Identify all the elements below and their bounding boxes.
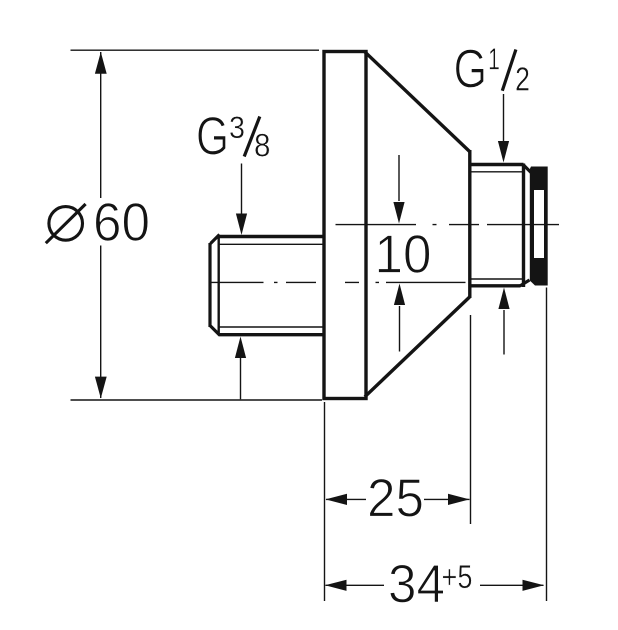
spigot bottom thread line [219,326,323,328]
arrowhead G3/8 up [235,337,246,359]
centerline G3/8 axis [210,281,466,283]
arrowhead 10 down [393,202,404,224]
spigot top chamfer [211,235,220,244]
label +5 tolerance [443,565,472,588]
label G3/8 [198,116,269,156]
centerline G1/2 axis [336,224,560,226]
arrowhead 25 right [448,494,470,505]
label Ø60 symbol [46,204,86,243]
G1/2 stub bottom thread line [470,278,522,280]
label 34 [390,565,444,603]
arrowhead G1/2 up [498,288,509,310]
G1/2 stub top thread line [470,171,522,173]
spigot bottom edge [219,333,323,336]
extension line 34 right [546,288,548,602]
G1/2 stub top chamfer [523,165,531,173]
spigot top edge [219,235,323,238]
arrowhead G1/2 down [498,141,509,163]
arrow G3/8 lower shaft [240,357,242,399]
arrow G1/2 shaft [503,94,505,141]
arrow 10 upper shaft [398,155,400,201]
spigot bottom chamfer [211,326,220,335]
cone right face [468,150,471,298]
extension line 25 right [470,315,472,524]
arrow 10 lower shaft [399,306,401,352]
label 25 [370,479,422,517]
dimension line 25 left segment [326,498,366,500]
arrow G3/8 shaft [241,164,243,215]
label G1/2 [456,48,529,90]
dimension line 25 right segment [424,498,470,500]
cone top edge [365,52,470,152]
G1/2 stub top edge [470,163,524,166]
dimension line Ø60 upper part [100,52,102,198]
label 60 text [96,203,148,241]
arrowhead 25 left [326,494,348,505]
spigot chamfer edge line [217,235,219,335]
extension line bottom (Ø60) [71,399,323,401]
dimension line 34 right segment [480,584,544,586]
cone bottom edge [365,297,470,397]
arrowhead 10 up [394,284,405,306]
arrowhead 34 left [325,580,347,591]
G1/2 stub bottom edge [470,284,520,287]
spigot left end [208,243,211,327]
arrowhead Ø60 up [95,52,107,74]
G1/2 stub face [522,164,525,288]
label 10 [378,235,429,273]
flange (wall plate, Ø60 body) [324,52,366,399]
extension line top (Ø60) [71,49,320,51]
extension line flange face (bottom dims) [324,402,326,601]
dimension line 34 left segment [326,584,385,586]
arrowhead Ø60 down [95,377,107,399]
dimension line Ø60 lower part [100,246,102,399]
spigot top thread line [219,243,323,245]
G1/2 stub bottom chamfer [520,280,530,286]
arrowhead 34 right [523,580,545,591]
arrow G1/2 lower shaft [503,310,505,355]
seal ring (black cross-section) [530,167,548,286]
arrowhead G3/8 down [236,214,247,236]
